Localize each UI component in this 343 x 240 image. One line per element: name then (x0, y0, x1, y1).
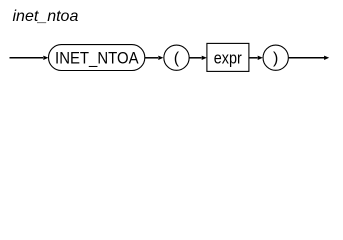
arrowhead into INET_NTOA (43, 56, 48, 60)
wire start (10, 57, 44, 59)
wire (145, 57, 158, 59)
wire (189, 57, 201, 59)
terminal ( (circle) (164, 45, 189, 70)
nonterminal expr (rect) (207, 43, 249, 71)
wire end (289, 57, 325, 59)
arrowhead into ( (158, 56, 163, 60)
arrowhead into expr (202, 56, 207, 60)
svg-text:INET_NTOA: INET_NTOA (55, 48, 139, 67)
svg-text:(: ( (174, 50, 180, 67)
arrowhead into ) (258, 56, 263, 60)
wire (249, 57, 257, 59)
arrowhead end (324, 56, 329, 60)
svg-text:): ) (273, 50, 278, 67)
svg-text:inet_ntoa: inet_ntoa (13, 8, 79, 25)
terminal ) (circle) (263, 45, 288, 70)
svg-text:expr: expr (214, 48, 242, 67)
terminal INET_NTOA (stadium) (49, 45, 145, 71)
